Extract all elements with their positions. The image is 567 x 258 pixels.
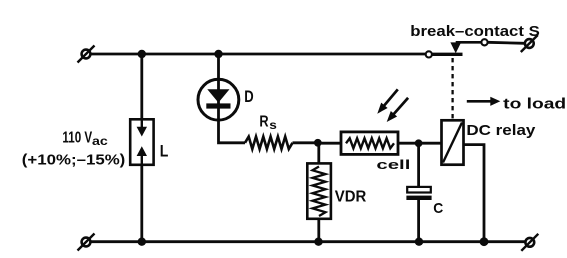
svg-text:D: D [244, 87, 253, 106]
junction top rail / L branch [138, 50, 146, 58]
terminal bottom-left [78, 234, 95, 251]
svg-text:ac: ac [92, 136, 109, 148]
svg-text:to load: to load [503, 95, 566, 112]
svg-text:L: L [160, 142, 169, 161]
junction relay / bottom rail [480, 237, 489, 246]
arrow to load [467, 97, 501, 106]
light arrow 1 [377, 89, 398, 113]
wire VDR bottom lead [317, 219, 320, 242]
regulator L (box with opposed arrows) [130, 119, 153, 165]
svg-text:C: C [433, 200, 443, 217]
node A junction (Rs/VDR/cell) [314, 139, 322, 147]
node B junction (cell/C/relay) [415, 139, 423, 147]
svg-text:break–contact S: break–contact S [410, 23, 540, 40]
wire node A to cell [318, 142, 341, 145]
relay coil (box with diagonal) [442, 120, 464, 164]
svg-text:cell: cell [376, 158, 410, 172]
mechanical link relay to contact (dashed) [451, 58, 453, 120]
terminal top-left [78, 46, 95, 63]
terminal top-right [521, 35, 538, 52]
svg-text:DC relay: DC relay [466, 122, 536, 139]
wire relay to bottom rail [464, 145, 485, 242]
wire VDR top lead [317, 143, 320, 164]
wire node B to relay coil [419, 142, 442, 145]
terminal bottom-right [521, 234, 538, 251]
resistor Rs [245, 137, 293, 149]
wire bottom rail [90, 240, 525, 243]
diode D (circled) [198, 79, 239, 120]
wire L branch top [140, 54, 143, 120]
junction L branch / bottom rail [138, 238, 146, 246]
wire Rs to node A [293, 141, 319, 144]
break contact S [426, 39, 488, 57]
svg-text:110 V: 110 V [62, 130, 92, 147]
wire diode branch and lead to Rs [219, 54, 246, 143]
svg-text:s: s [269, 118, 277, 132]
wire top rail [90, 53, 425, 56]
svg-text:R: R [259, 114, 269, 131]
varistor VDR (boxed zigzag) [307, 163, 331, 218]
wire cell to node B [398, 142, 419, 145]
capacitor C (electrolytic: hollow + solid plate) [406, 187, 431, 200]
junction top rail / diode branch [214, 50, 222, 58]
junction capacitor / bottom rail [415, 238, 423, 246]
wire L branch bottom [140, 165, 143, 242]
svg-text:VDR: VDR [335, 188, 367, 205]
wire capacitor bottom lead [417, 200, 420, 242]
svg-text:(+10%;–15%): (+10%;–15%) [22, 152, 126, 168]
light arrow 2 [387, 98, 408, 122]
photocell "cell" (boxed resistor) [341, 132, 398, 155]
wire capacitor top lead [417, 143, 420, 187]
junction VDR / bottom rail [314, 238, 322, 246]
wire switch to terminal top-right [488, 42, 525, 43]
